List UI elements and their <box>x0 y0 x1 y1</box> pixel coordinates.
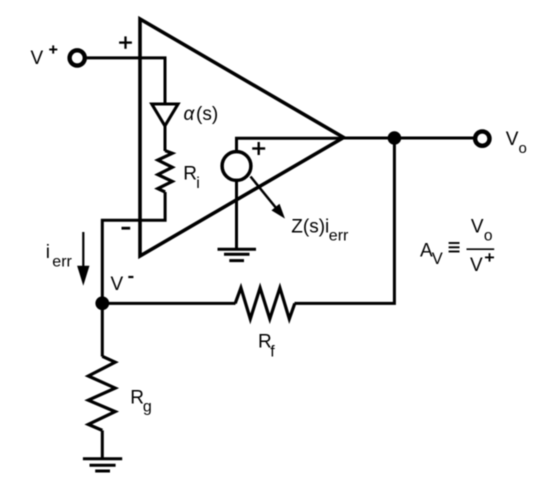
arrow ierr <box>78 232 89 284</box>
svg-text:i: i <box>196 175 200 192</box>
current source U2 <box>222 152 251 181</box>
svg-text:f: f <box>270 344 275 361</box>
svg-text:α: α <box>184 104 196 125</box>
label Ri <box>183 164 200 192</box>
label V- <box>111 274 134 295</box>
wire Rg to ground <box>101 430 104 458</box>
ground source <box>218 249 257 260</box>
svg-text:o: o <box>484 228 493 245</box>
label Av formula <box>420 217 494 277</box>
label Rf <box>258 332 275 361</box>
op-amp U1 <box>140 19 344 256</box>
svg-text:err: err <box>52 253 72 270</box>
svg-text:err: err <box>329 228 349 245</box>
wire V- to Rg <box>101 303 104 356</box>
svg-text:V: V <box>432 250 443 268</box>
svg-text:R: R <box>183 164 197 185</box>
label alpha(s) <box>184 104 219 125</box>
wire inverting input <box>102 192 165 303</box>
svg-text:(s): (s) <box>196 104 218 125</box>
svg-text:R: R <box>130 388 144 409</box>
node output dot <box>388 131 402 145</box>
svg-text:V: V <box>470 255 483 276</box>
resistor Rf <box>235 288 295 319</box>
resistor Ri <box>158 151 173 192</box>
plus input label <box>119 36 132 48</box>
svg-text:V: V <box>31 48 44 69</box>
svg-text:V: V <box>471 217 484 238</box>
resistor Rg <box>88 356 115 430</box>
label ierr <box>46 242 73 270</box>
wire noninverting input <box>87 58 165 105</box>
label Rg <box>130 388 152 416</box>
svg-text:V: V <box>506 129 519 150</box>
wire source bottom <box>235 181 238 250</box>
label Vo <box>506 129 527 157</box>
svg-text:Z(s)i: Z(s)i <box>291 217 329 238</box>
svg-text:g: g <box>143 398 152 415</box>
plus source label <box>252 142 265 155</box>
wire source top to apex <box>237 138 344 152</box>
wire buffer to Ri <box>164 126 167 151</box>
arrow Z(s)ierr <box>251 177 285 218</box>
buffer a(s) <box>152 104 178 126</box>
svg-text:i: i <box>46 242 50 263</box>
label Z(s)ierr <box>291 217 349 245</box>
svg-text:V: V <box>111 274 124 295</box>
terminal Vo <box>475 131 489 145</box>
terminal V+ <box>70 50 85 65</box>
ground Rg <box>83 459 122 471</box>
wire V- node to Rf <box>102 302 235 305</box>
label V+ <box>31 45 58 69</box>
wire output <box>343 137 475 140</box>
minus input label <box>122 227 131 230</box>
node V- dot <box>95 296 109 310</box>
wire feedback right leg <box>295 140 395 303</box>
svg-text:o: o <box>519 140 527 157</box>
